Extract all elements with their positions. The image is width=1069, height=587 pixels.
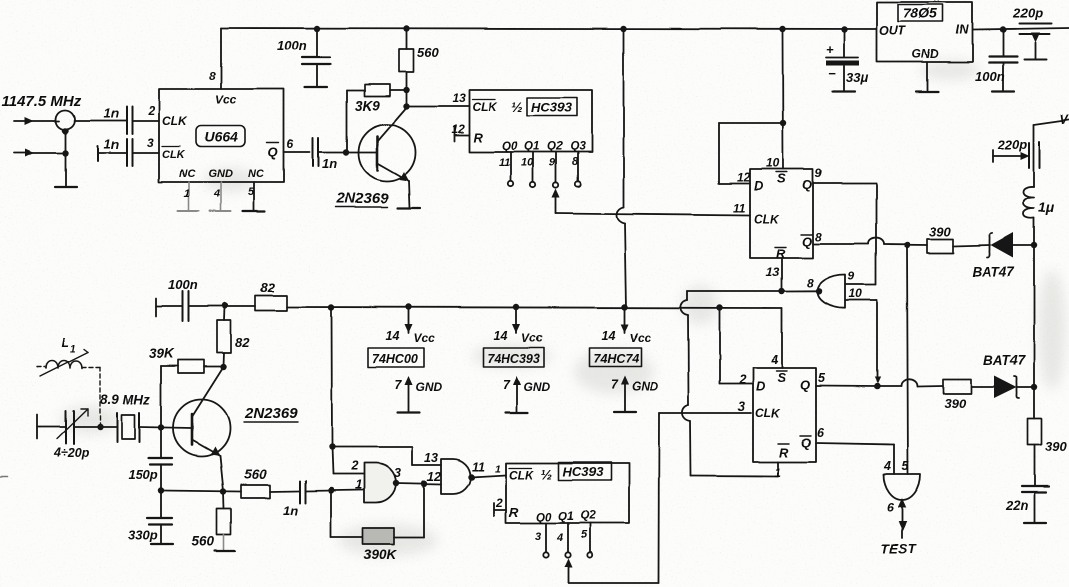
svg-text:−: − <box>828 66 836 81</box>
svg-text:9: 9 <box>549 157 556 169</box>
wire emitter to ground <box>409 181 410 208</box>
svg-text:10: 10 <box>766 156 780 170</box>
svg-text:2: 2 <box>495 496 503 510</box>
resistor 560 (collector) <box>406 28 408 49</box>
wire connector to ground <box>65 130 67 186</box>
wire pin3 <box>133 152 159 154</box>
svg-text:12: 12 <box>451 122 465 136</box>
wire gate1 out to gate2 <box>396 484 441 485</box>
wire osc input <box>36 415 38 439</box>
svg-text:2N2369: 2N2369 <box>244 405 298 422</box>
ground pin4 <box>210 210 231 212</box>
wire gate8 to FF2 R (hops) <box>686 291 688 300</box>
resistor 390 (lower) <box>943 380 971 394</box>
pin Q3 (8) <box>577 152 579 181</box>
wire FF2 Sbar riser <box>781 308 783 368</box>
svg-text:220p: 220p <box>1012 6 1043 21</box>
wire gate8 output run <box>782 290 818 292</box>
wire 390 to diode <box>953 245 990 246</box>
wire cap to gate1 input <box>305 490 364 491</box>
svg-text:GND: GND <box>632 380 659 394</box>
svg-text:1n: 1n <box>104 137 119 152</box>
resistor 560 (horizontal) <box>241 485 270 498</box>
svg-text:220p: 220p <box>997 137 1028 152</box>
svg-text:74HC00: 74HC00 <box>372 352 418 366</box>
svg-text:9: 9 <box>815 166 822 180</box>
resistor 39K <box>160 366 162 427</box>
svg-text:5: 5 <box>902 459 910 473</box>
ground 22n <box>1024 522 1046 524</box>
ground 100n input <box>992 90 1014 92</box>
wire lower +5V rail <box>287 307 782 308</box>
wire 7805 GND pin <box>926 62 928 91</box>
inductor 1u <box>1024 187 1035 218</box>
wire module vertical lower <box>1033 218 1035 419</box>
svg-text:8: 8 <box>572 156 579 168</box>
svg-text:CLK: CLK <box>162 149 186 161</box>
svg-text:CLK: CLK <box>509 468 535 482</box>
svg-text:13: 13 <box>424 451 438 465</box>
svg-text:3: 3 <box>147 136 154 150</box>
svg-text:4: 4 <box>213 188 220 200</box>
svg-text:1: 1 <box>495 463 501 475</box>
wire Q2 to FF1 CLK <box>552 189 560 198</box>
svg-text:33μ: 33μ <box>846 70 868 85</box>
gate U1d TEST <box>884 474 921 500</box>
svg-text:12: 12 <box>737 170 751 184</box>
svg-text:Q0: Q0 <box>502 141 518 153</box>
wire pin2 <box>133 120 159 122</box>
capacitor 150p <box>160 427 162 458</box>
wire FF1 Qbar pin 8 (hop) to R <box>813 243 868 245</box>
svg-text:1n: 1n <box>283 503 298 518</box>
wire to coupling cap <box>270 490 299 493</box>
svg-text:150p: 150p <box>128 467 158 482</box>
svg-text:GND: GND <box>912 47 939 61</box>
ground <box>55 186 77 188</box>
ground pin1 <box>178 210 199 212</box>
capacitor 1n (osc coupling) <box>299 481 301 503</box>
svg-text:D: D <box>754 178 764 193</box>
svg-text:14: 14 <box>602 329 616 343</box>
svg-text:11: 11 <box>472 460 485 474</box>
wire R stub pin 12 <box>453 126 455 141</box>
wire Vcc to gate inputs <box>331 308 334 448</box>
svg-text:8: 8 <box>209 69 216 83</box>
svg-text:L: L <box>61 335 69 350</box>
svg-text:3: 3 <box>394 466 401 480</box>
svg-text:Vcc: Vcc <box>215 93 237 107</box>
svg-text:560: 560 <box>192 534 215 549</box>
svg-text:39K: 39K <box>149 346 175 361</box>
capacitor 22n <box>1034 445 1036 486</box>
svg-text:3: 3 <box>738 400 745 414</box>
svg-text:Q1: Q1 <box>524 141 539 153</box>
svg-text:D: D <box>756 379 766 394</box>
svg-text:100n: 100n <box>277 38 307 53</box>
svg-text:390: 390 <box>929 224 951 239</box>
svg-text:7: 7 <box>503 378 511 392</box>
svg-text:100n: 100n <box>975 69 1005 84</box>
svg-text:1μ: 1μ <box>1038 199 1055 215</box>
wire gate2 out to HC393b <box>471 475 506 477</box>
svg-text:390K: 390K <box>364 547 398 562</box>
svg-text:330p: 330p <box>128 528 158 543</box>
svg-text:6: 6 <box>817 426 825 440</box>
capacitor 33u electrolytic <box>843 30 845 58</box>
wire FF2 D riser <box>720 383 754 385</box>
svg-text:4: 4 <box>556 532 563 544</box>
svg-text:BAT47: BAT47 <box>983 353 1026 368</box>
svg-text:7: 7 <box>395 378 403 392</box>
wire trimmer to crystal <box>74 426 117 428</box>
svg-text:S: S <box>777 370 786 385</box>
svg-text:74HC74: 74HC74 <box>593 352 639 366</box>
IC U664 box <box>159 89 284 182</box>
gate U1c (to FF1 R) <box>817 275 845 308</box>
svg-text:+: + <box>826 42 834 57</box>
IC FF1 74HC74 box <box>750 169 813 258</box>
svg-text:GND: GND <box>416 380 443 394</box>
svg-text:22n: 22n <box>1005 498 1028 513</box>
svg-text:5: 5 <box>248 186 255 198</box>
svg-text:1: 1 <box>184 188 190 200</box>
svg-text:390: 390 <box>944 396 966 411</box>
capacitor 330p <box>160 490 162 518</box>
svg-text:Vcc: Vcc <box>414 331 436 345</box>
ground pin5 <box>243 210 265 212</box>
svg-text:560: 560 <box>244 467 267 482</box>
svg-text:13: 13 <box>766 265 780 279</box>
capacitor trimmer 4-20p <box>65 411 67 444</box>
svg-text:100n: 100n <box>168 277 198 292</box>
svg-text:4÷20p: 4÷20p <box>53 446 90 460</box>
svg-text:14: 14 <box>386 329 400 343</box>
wire collector node <box>223 353 226 367</box>
svg-text:2N2369: 2N2369 <box>335 190 389 207</box>
wire R stub pin 2 <box>493 503 495 516</box>
svg-text:CLK: CLK <box>472 100 498 114</box>
svg-text:6: 6 <box>887 501 895 515</box>
wire stub (left edge artifact) <box>0 476 7 478</box>
wire +5V drop to lower rail (with hop) <box>623 29 625 208</box>
svg-text:GND: GND <box>524 380 551 394</box>
capacitor 100n (lower rail) <box>155 298 157 316</box>
IC HC393 (lower half) box <box>506 463 629 523</box>
svg-text:13: 13 <box>452 91 466 105</box>
pin 5 <box>253 182 255 211</box>
svg-text:1n: 1n <box>322 156 337 171</box>
wire to 82 <box>189 305 255 307</box>
IC HC393 (upper half) box <box>469 90 592 152</box>
svg-text:U664: U664 <box>204 129 238 145</box>
resistor 390 (right bottom) <box>1028 419 1042 445</box>
resistor 390K feedback <box>330 491 332 538</box>
svg-text:Q2: Q2 <box>547 141 563 153</box>
capacitor 1n (CLKbar input) <box>97 146 99 161</box>
svg-text:Q: Q <box>801 435 811 450</box>
svg-text:12: 12 <box>427 470 441 484</box>
svg-text:14: 14 <box>494 329 508 343</box>
svg-text:1: 1 <box>355 478 362 492</box>
wire FF1 Q to gate pin 9 <box>813 182 876 184</box>
resistor 390 (upper) <box>927 239 953 253</box>
svg-text:10: 10 <box>521 157 534 169</box>
crystal X1 <box>116 413 118 442</box>
wire Q1 to FF2 CLK <box>564 559 572 568</box>
pin 4 <box>220 182 222 211</box>
wire FF1 D loop <box>719 182 750 184</box>
transistor Q2 2N2369 <box>173 400 230 457</box>
svg-text:S: S <box>777 171 786 186</box>
pin Q0 (3) <box>545 523 547 552</box>
svg-text:1: 1 <box>774 466 781 480</box>
svg-text:8: 8 <box>807 276 814 290</box>
wire FF1 Rbar riser <box>781 258 783 291</box>
svg-text:78Ø5: 78Ø5 <box>903 5 937 21</box>
svg-text:CLK: CLK <box>755 406 781 420</box>
svg-text:2: 2 <box>147 104 155 118</box>
svg-text:4: 4 <box>883 459 891 473</box>
wire crystal to base <box>139 427 192 428</box>
pin 1 <box>188 182 190 211</box>
wire FF1 Sbar riser to +5V <box>782 29 785 169</box>
wire input arrow 2 <box>14 152 66 154</box>
resistor 560 (emitter, vertical) <box>223 492 226 510</box>
ground Q1 emitter <box>398 207 420 209</box>
svg-text:Q: Q <box>802 177 812 192</box>
svg-text:9: 9 <box>848 269 855 283</box>
diode D1 BAT47 <box>991 233 1014 258</box>
wire 7805 IN to right <box>973 29 1069 31</box>
wire module vertical <box>1033 125 1035 187</box>
svg-text:82: 82 <box>235 335 250 350</box>
svg-text:V: V <box>1060 113 1069 127</box>
capacitor 100n (input) <box>1002 30 1004 56</box>
wire TEST output <box>898 498 907 508</box>
svg-text:HC393: HC393 <box>563 464 604 479</box>
svg-text:1n: 1n <box>104 106 119 121</box>
IC 7805 regulator box <box>877 2 973 62</box>
svg-text:Q0: Q0 <box>536 512 552 524</box>
wire gate10 stub to FF2 Q <box>846 299 878 301</box>
svg-text:74HC393: 74HC393 <box>487 352 540 366</box>
svg-text:Vcc: Vcc <box>522 331 544 345</box>
svg-text:10: 10 <box>849 287 863 301</box>
wire input arrow 1 <box>14 120 60 122</box>
svg-text:11: 11 <box>733 201 746 215</box>
svg-text:IN: IN <box>956 23 969 37</box>
svg-text:8.9 MHz: 8.9 MHz <box>100 392 151 407</box>
wire pin5 vertical <box>907 245 908 474</box>
svg-text:R: R <box>776 246 786 261</box>
capacitor 1n (coupling) <box>312 138 314 166</box>
svg-text:½: ½ <box>511 99 523 115</box>
svg-text:5: 5 <box>818 371 826 385</box>
svg-text:½: ½ <box>541 466 553 482</box>
ground 7805 <box>916 90 938 92</box>
svg-text:11: 11 <box>499 157 510 169</box>
svg-text:7: 7 <box>611 378 619 392</box>
svg-text:1147.5 MHz: 1147.5 MHz <box>2 93 82 110</box>
pin 8 riser <box>220 28 222 89</box>
svg-text:NC: NC <box>248 168 265 180</box>
svg-text:Q: Q <box>268 145 278 160</box>
svg-text:3K9: 3K9 <box>355 98 380 113</box>
resistor 82 (vertical) <box>217 320 231 353</box>
wire emitter rail <box>161 491 241 492</box>
svg-text:Q: Q <box>800 377 810 392</box>
connector J1 <box>57 111 76 130</box>
wire to module (top right) <box>1034 120 1069 125</box>
gate U1b NAND <box>441 459 471 494</box>
svg-text:CLK: CLK <box>754 212 780 226</box>
pin Q1 (10) <box>532 152 534 182</box>
ground 330p <box>151 543 173 545</box>
ground 100n <box>305 86 327 88</box>
svg-text:5: 5 <box>581 529 588 541</box>
wire 82 vert to rail <box>224 306 227 321</box>
IC FF2 74HC74 box <box>753 368 816 462</box>
ground 560 <box>215 550 235 552</box>
svg-text:2: 2 <box>350 459 358 473</box>
svg-text:R: R <box>509 505 519 520</box>
pin Q1 (4) <box>567 523 569 552</box>
wire cap to Q1 base <box>319 151 377 153</box>
svg-text:Vcc: Vcc <box>630 331 652 345</box>
resistor 82 (horizontal) <box>255 296 287 311</box>
svg-text:3: 3 <box>535 531 541 543</box>
svg-text:4: 4 <box>770 353 778 367</box>
svg-text:OUT: OUT <box>879 24 907 38</box>
wire circle to C1 <box>75 120 126 122</box>
pin Q0 (11) <box>510 152 512 181</box>
svg-text:R: R <box>473 130 483 145</box>
svg-text:HC393: HC393 <box>531 100 572 115</box>
wire +5V top rail <box>221 28 876 29</box>
svg-text:6: 6 <box>287 137 294 151</box>
resistor 3K9 <box>365 84 391 96</box>
diode D2 BAT47 <box>971 386 994 388</box>
wire FF2 Qbar to TEST gate <box>816 443 894 445</box>
svg-text:390: 390 <box>1045 439 1067 454</box>
gate U1a NAND <box>364 463 396 503</box>
wire emitter down <box>220 456 224 491</box>
svg-text:Q1: Q1 <box>558 511 573 523</box>
svg-text:BAT47: BAT47 <box>972 264 1015 279</box>
capacitor 1n (CLK input) <box>126 107 128 134</box>
transistor Q1 2N2369 <box>359 124 416 181</box>
capacitor 100n (top) <box>316 28 318 57</box>
svg-text:TEST: TEST <box>881 541 917 556</box>
svg-text:1: 1 <box>70 344 76 355</box>
svg-text:Q2: Q2 <box>580 510 596 522</box>
pin Q2 (9) <box>555 152 557 182</box>
wire collector to HC393a CLK pin 13 <box>407 105 470 107</box>
svg-text:CLK: CLK <box>162 114 188 128</box>
svg-text:8: 8 <box>815 230 822 244</box>
wire FF2 Q out (hop) <box>816 385 877 388</box>
pin Q2 (5) <box>589 523 591 552</box>
svg-text:R: R <box>779 445 789 460</box>
svg-text:Q: Q <box>802 234 812 249</box>
svg-text:82: 82 <box>260 280 275 295</box>
svg-text:GND: GND <box>208 168 233 180</box>
ground 33u <box>833 90 855 92</box>
svg-text:560: 560 <box>417 45 439 60</box>
svg-text:NC: NC <box>179 168 196 180</box>
